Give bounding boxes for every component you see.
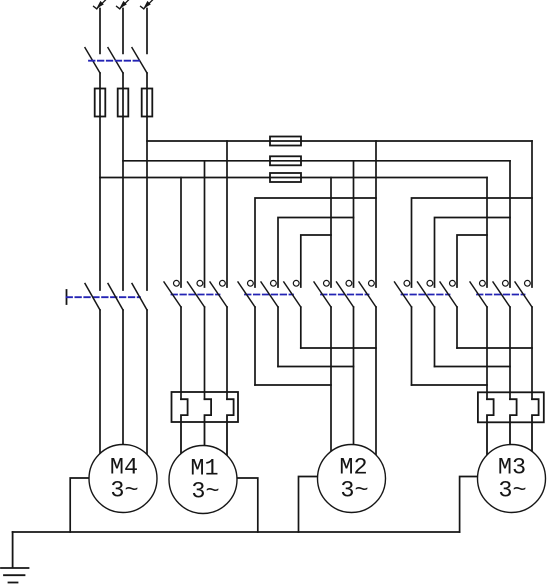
ground symbol xyxy=(1,568,29,583)
contactor KM1 dashed linkage xyxy=(172,294,220,296)
contactor KM3F pole3 xyxy=(440,280,457,307)
disconnect switch QS1 pole A blade xyxy=(85,48,100,73)
disconnect switch QS1 pole B blade xyxy=(108,48,123,73)
wire phase C top xyxy=(146,9,148,54)
contactor KM3R pole2 xyxy=(493,280,510,307)
wire KM2R pole3 to motor M2 xyxy=(375,307,377,460)
wire KM3F pole1 to link xyxy=(411,307,413,385)
fuse FU2b on bus L2 xyxy=(270,156,301,165)
link KM2F2-KM2R2 xyxy=(278,366,354,368)
wire drop L3 to KM1 pole1 xyxy=(180,178,182,288)
link KM3F3-KM3R3 xyxy=(457,347,532,349)
switch QS2 linkage bar xyxy=(66,290,68,304)
wire QS1-C to fuse FU1c xyxy=(146,73,148,89)
wire KM1 pole2 to relay FR1 xyxy=(204,307,206,399)
wire QS1-A to fuse FU1a xyxy=(99,73,101,89)
wire motor M4 to earth bus xyxy=(70,478,123,532)
QS1 linkage dashed line xyxy=(89,60,140,62)
wire drop L3 to KM2R pole1 xyxy=(330,178,332,288)
fuse FU2a on bus L1 xyxy=(270,137,301,146)
bus L3 xyxy=(100,177,487,179)
wire inside fuse FU1c xyxy=(146,89,148,117)
wire KM3F pole2 to link xyxy=(434,307,436,367)
wire drop L1 end to KM3R pole3 xyxy=(531,141,533,287)
link KM3F2-KM3R2 xyxy=(435,366,511,368)
wire KM2F pole3 to link xyxy=(300,307,302,348)
fuse FU1b xyxy=(118,89,129,117)
wire drop L1 to KM2R pole3 xyxy=(375,141,377,287)
FR3 heater element 2 xyxy=(510,399,517,450)
wire QS1-B to fuse FU1b xyxy=(122,73,124,89)
supply arrow phase A xyxy=(94,0,106,9)
wire KM2F pole2 to link xyxy=(277,307,279,367)
fuse FU1a xyxy=(95,89,106,117)
motor M1 circle xyxy=(169,446,237,514)
wire motor M3 to earth bus xyxy=(460,477,512,533)
switch QS2 pole C blade xyxy=(132,284,147,311)
bus L2 xyxy=(123,160,510,162)
motor M3 circle xyxy=(478,445,546,513)
wire branch KM2F pole2 feed xyxy=(278,218,354,288)
contactor KM2F dashed linkage xyxy=(245,294,293,296)
wire KM1 pole3 to relay FR1 xyxy=(226,307,228,399)
contactor KM3R pole3 xyxy=(515,280,532,307)
FR1 heater element 1 xyxy=(181,399,188,460)
contactor KM1 pole3 xyxy=(210,280,227,307)
svg-text:3~: 3~ xyxy=(110,478,138,505)
FR1 heater element 3 xyxy=(227,399,234,460)
supply arrow phase B xyxy=(117,0,129,9)
wire QS2-B to motor M4 xyxy=(122,310,124,450)
wire phase A fuse to QS2 xyxy=(99,117,101,291)
thermal overload relay FR1 box xyxy=(172,392,239,422)
wire inside fuse FU1b xyxy=(122,89,124,117)
link KM2F1-KM2R1 xyxy=(255,384,331,386)
wire KM2R pole2 to motor M2 xyxy=(353,307,355,450)
contactor KM3R pole1 xyxy=(470,280,487,307)
wire earth bus to ground xyxy=(12,532,14,568)
contactor KM3F dashed linkage xyxy=(402,294,450,296)
supply arrow phase C xyxy=(141,0,153,9)
fuse FU2c on bus L3 xyxy=(270,173,301,182)
wire motor M1 to earth bus xyxy=(203,478,258,532)
link KM2F3-KM2R3 xyxy=(301,347,376,349)
contactor KM3F pole2 xyxy=(418,280,435,307)
wire branch KM2F pole1 feed xyxy=(255,198,376,287)
wire phase B top xyxy=(122,9,124,54)
wire drop L2 end to KM3R pole2 xyxy=(509,161,511,287)
wire drop L1 to KM1 pole3 xyxy=(226,141,228,287)
wire QS2-C to motor M4 xyxy=(146,310,148,460)
wire KM2F pole1 to link xyxy=(254,307,256,385)
contactor KM3F pole1 xyxy=(395,280,412,307)
contactor KM2R dashed linkage xyxy=(321,294,369,296)
contactor KM2R pole1 xyxy=(314,280,331,307)
wire phase A top xyxy=(99,9,101,54)
wire QS2-A to motor M4 xyxy=(99,310,101,460)
motor M4 label xyxy=(110,455,527,506)
thermal overload relay FR3 box xyxy=(478,392,544,422)
svg-text:3~: 3~ xyxy=(498,478,526,505)
wire branch KM3F pole3 feed xyxy=(457,235,487,287)
wire phase B fuse to QS2 xyxy=(122,117,124,291)
svg-text:3~: 3~ xyxy=(340,478,368,505)
contactor KM3R dashed linkage xyxy=(477,294,525,296)
wire KM2R pole1 to motor M2 xyxy=(330,307,332,460)
wire in FU2c xyxy=(270,177,301,179)
FR3 heater element 1 xyxy=(487,399,494,460)
wire KM3F pole3 to link xyxy=(456,307,458,348)
QS2 linkage dashed line xyxy=(67,296,141,298)
contactor KM2F pole3 xyxy=(284,280,301,307)
contactor KM2F pole2 xyxy=(261,280,278,307)
wire in FU2a xyxy=(270,140,301,142)
wire drop L2 to KM2R pole2 xyxy=(353,161,355,287)
contactor KM2R pole2 xyxy=(337,280,354,307)
wire branch KM2F pole3 feed xyxy=(301,235,331,287)
FR1 heater element 2 xyxy=(205,399,212,450)
contactor KM2R pole3 xyxy=(359,280,376,307)
bus L1 xyxy=(147,140,532,142)
contactor KM2F pole1 xyxy=(238,280,255,307)
wire KM3R pole3 to relay FR3 xyxy=(531,307,533,399)
wire branch KM3F pole1 feed xyxy=(412,198,533,287)
switch QS2 pole B blade xyxy=(108,284,123,311)
wire phase C fuse to QS2 xyxy=(146,117,148,291)
contactor KM1 pole1 xyxy=(164,280,181,307)
wire in FU2b xyxy=(270,160,301,162)
wire KM1 pole1 to relay FR1 xyxy=(180,307,182,399)
wire KM3R pole1 to relay FR3 xyxy=(486,307,488,399)
wire drop L3 end to KM3R pole1 xyxy=(486,178,488,288)
switch QS2 pole A blade xyxy=(85,284,100,311)
motor M2 circle xyxy=(318,445,386,513)
wire branch KM3F pole2 feed xyxy=(435,218,511,288)
wire drop L2 to KM1 pole2 xyxy=(204,161,206,287)
motor M4 circle xyxy=(89,445,157,513)
svg-text:3~: 3~ xyxy=(191,479,219,506)
wire motor M2 to earth bus xyxy=(299,477,352,533)
wire KM3R pole2 to relay FR3 xyxy=(509,307,511,399)
wire inside fuse FU1a xyxy=(99,89,101,117)
link KM3F1-KM3R1 xyxy=(412,384,488,386)
disconnect switch QS1 pole C blade xyxy=(132,48,147,73)
contactor KM1 pole2 xyxy=(188,280,205,307)
fuse FU1c xyxy=(142,89,153,117)
FR3 heater element 3 xyxy=(532,399,539,460)
earth bus xyxy=(13,531,460,533)
